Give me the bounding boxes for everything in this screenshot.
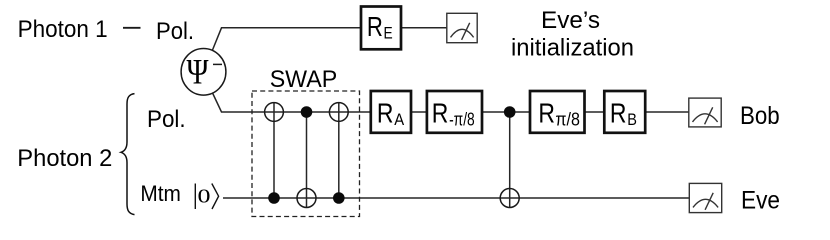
svg-text:SWAP: SWAP [270,66,338,93]
svg-text:Pol.: Pol. [147,106,186,133]
svg-text:initialization: initialization [511,35,634,62]
svg-text:Photon 2: Photon 2 [17,145,112,172]
svg-text:R: R [610,98,627,129]
svg-text:-π/8: -π/8 [449,110,475,130]
svg-text:Eve’s: Eve’s [541,7,600,34]
svg-text:R: R [432,98,449,129]
svg-text:B: B [627,111,637,129]
svg-text:Photon 1: Photon 1 [18,16,108,43]
svg-text:R: R [367,11,383,42]
svg-text:Pol.: Pol. [156,18,194,45]
svg-text:R: R [377,98,394,129]
svg-text:Eve: Eve [741,186,780,214]
svg-text:Mtm: Mtm [140,181,181,206]
svg-text:π/8: π/8 [555,110,580,130]
svg-text:R: R [538,98,555,129]
svg-text:0: 0 [198,185,211,207]
svg-text:E: E [384,24,393,42]
svg-text:Bob: Bob [740,102,780,130]
svg-text:A: A [394,111,404,129]
svg-text:Ψ: Ψ [187,52,209,92]
